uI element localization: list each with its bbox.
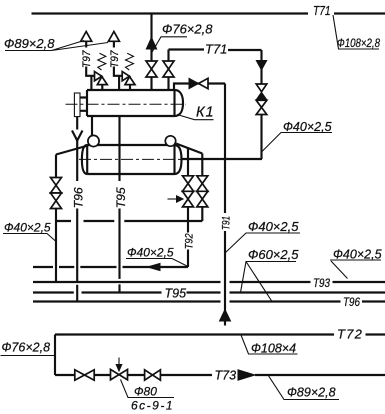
bottom shell centerline bbox=[79, 158, 181, 160]
top shell right cap bbox=[175, 90, 184, 116]
pipe T71 branch line bbox=[169, 48, 262, 51]
drain collector bbox=[56, 220, 202, 222]
safety valve body group2 bbox=[122, 72, 129, 81]
drain header horizontal bbox=[33, 266, 188, 268]
small arrow at stack A bbox=[168, 198, 178, 200]
flag Ф76×2,8 bottom left bbox=[1, 355, 56, 357]
open arrow down on T96 bbox=[72, 131, 83, 141]
pipe T71 top main bbox=[32, 12, 385, 14]
riser T91 bbox=[224, 84, 226, 326]
svg-text:Т95: Т95 bbox=[165, 287, 187, 301]
main T93 bbox=[33, 281, 385, 283]
control valve B on T73 bbox=[111, 369, 120, 379]
spring group2 bbox=[126, 53, 134, 70]
svg-text:Ф108×2,8: Ф108×2,8 bbox=[337, 36, 380, 50]
svg-text:Ф40×2,5: Ф40×2,5 bbox=[333, 248, 382, 262]
svg-text:К1: К1 bbox=[196, 105, 215, 121]
flow arrow up T91 bbox=[220, 310, 231, 322]
actuator arrow on valve B bbox=[118, 358, 120, 366]
riser from T71 branch bbox=[260, 50, 262, 84]
stack A valve 2 bbox=[183, 191, 194, 199]
K1 leader bbox=[177, 115, 214, 120]
svg-text:Т93: Т93 bbox=[313, 276, 330, 290]
svg-text:Т96: Т96 bbox=[71, 187, 85, 208]
riser T96 from flange bbox=[76, 117, 78, 302]
vent line T97 group2 bbox=[114, 41, 122, 76]
flag Ф60×2,5 leaders bbox=[241, 262, 297, 302]
svg-text:Ф76×2,8: Ф76×2,8 bbox=[2, 341, 51, 355]
svg-text:Т91: Т91 bbox=[220, 216, 232, 230]
vent riser Ф76 bbox=[150, 14, 152, 62]
flag Ф40×2,5 to T93 bbox=[330, 260, 381, 279]
svg-text:6с-9-1: 6с-9-1 bbox=[131, 399, 174, 413]
spring group1 bbox=[98, 53, 106, 70]
check valve on riser bbox=[256, 84, 267, 92]
main T72 bbox=[55, 333, 385, 335]
svg-text:Т72: Т72 bbox=[337, 327, 363, 342]
svg-text:Т97: Т97 bbox=[81, 50, 93, 68]
stack B valve 2 bbox=[197, 191, 208, 199]
safety valve group 1 vent outlet bbox=[81, 32, 92, 42]
drain column left bbox=[55, 155, 57, 283]
drain line T92 bbox=[187, 221, 189, 267]
valve bbox=[163, 61, 174, 69]
svg-text:Т96: Т96 bbox=[343, 295, 360, 309]
riser T95 through shell bbox=[118, 145, 120, 293]
svg-text:Ф80: Ф80 bbox=[134, 385, 157, 399]
svg-text:Ф89×2,8: Ф89×2,8 bbox=[4, 36, 55, 51]
safety valve inlet stubs group1 bbox=[91, 76, 102, 90]
riser lower segment bbox=[260, 115, 262, 160]
flag Ф40×2,5 to T92 bbox=[126, 259, 188, 267]
flag Ф76×2,8 bbox=[152, 37, 188, 53]
top shell left flange bbox=[74, 93, 80, 117]
svg-text:Ф89×2,8: Ф89×2,8 bbox=[287, 386, 336, 400]
nozzle circle left bbox=[88, 135, 99, 146]
vent line T97 bbox=[86, 41, 94, 76]
stack A valve 1 bbox=[183, 176, 194, 184]
valve C on T73 bbox=[145, 370, 153, 380]
safety valve inlet stubs group2 bbox=[119, 76, 130, 90]
flag Ф40×2,5 right bbox=[262, 133, 332, 152]
svg-text:Ф40×2,5: Ф40×2,5 bbox=[283, 120, 332, 134]
svg-text:Ф40×2,5: Ф40×2,5 bbox=[248, 219, 299, 234]
svg-text:Т97: Т97 bbox=[109, 50, 121, 68]
pipe from bottom shell to riser bbox=[182, 158, 263, 160]
nozzle circle right bbox=[165, 136, 175, 146]
gate valve on riser bbox=[256, 100, 267, 107]
flow arrow up on vent riser bbox=[146, 38, 156, 50]
flag Ф40×2,5 left bbox=[3, 234, 56, 242]
bottom shell left cap bbox=[82, 145, 87, 174]
main T96 bbox=[33, 300, 385, 302]
check valve on outlet bbox=[189, 78, 199, 88]
outlet pipe from top shell bbox=[174, 84, 225, 91]
drain valve 1 left bbox=[51, 178, 62, 186]
flag Ф80 / 6с-9-1 bbox=[121, 380, 175, 398]
svg-text:Ф76×2,8: Ф76×2,8 bbox=[162, 22, 213, 37]
main T95 bbox=[33, 291, 385, 293]
flange stub bbox=[80, 98, 87, 111]
svg-text:Т73: Т73 bbox=[215, 369, 237, 383]
vessel K1 bottom shell bbox=[87, 145, 174, 174]
valve column from T71 branch to vessel bbox=[167, 50, 169, 91]
svg-text:Ф108×4: Ф108×4 bbox=[251, 342, 296, 356]
bypass drop pipe bbox=[54, 335, 56, 376]
valve on vent riser bbox=[146, 61, 157, 69]
drain stack A bbox=[187, 148, 189, 221]
flow arrow right on T73 bbox=[238, 370, 255, 380]
flag Ф108×2,8 top right leader bbox=[333, 15, 379, 49]
drain diagonal from left nozzle bbox=[56, 146, 88, 155]
interconnect pipe T95 riser upper bbox=[118, 116, 120, 145]
drain diagonal from right nozzle bbox=[176, 144, 202, 154]
drain valve 2 left bbox=[51, 193, 62, 201]
svg-text:Т71: Т71 bbox=[313, 4, 331, 18]
bottom shell right cap bbox=[175, 145, 182, 174]
flag Ф108×4 bbox=[241, 335, 298, 354]
safety valve body group1 bbox=[95, 72, 102, 81]
drain stack B bbox=[201, 154, 203, 222]
svg-text:Ф40×2,5: Ф40×2,5 bbox=[4, 221, 51, 235]
vent riser to vessel bbox=[150, 77, 152, 90]
stack B valve 1 bbox=[197, 176, 208, 184]
svg-text:Т71: Т71 bbox=[205, 42, 227, 57]
flow arrow down bbox=[256, 61, 266, 71]
valve A on T73 bbox=[75, 370, 85, 380]
top shell centerline bbox=[66, 103, 187, 105]
svg-text:Т95: Т95 bbox=[114, 187, 128, 208]
svg-text:Ф60×2,5: Ф60×2,5 bbox=[248, 247, 299, 262]
flag Ф89×2,8 top left leaders bbox=[5, 41, 108, 51]
flag Ф40×2,5 to T91 bbox=[225, 233, 300, 253]
svg-text:Т92: Т92 bbox=[183, 233, 195, 249]
interconnect pipe left bbox=[91, 116, 93, 135]
flag Ф89×2,8 bottom right bbox=[268, 375, 339, 400]
vessel K1 top shell bbox=[87, 90, 175, 116]
safety valve group 2 vent outlet bbox=[108, 32, 119, 42]
flow arrow left on drain header bbox=[148, 263, 161, 270]
main T73 bbox=[55, 374, 385, 376]
svg-text:Ф40×2,5: Ф40×2,5 bbox=[127, 246, 174, 260]
